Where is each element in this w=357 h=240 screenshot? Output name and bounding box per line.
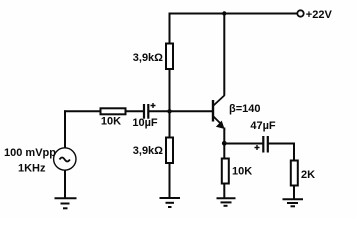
wire: 10K emitter resistor to ground — [223, 183, 225, 198]
wire: 47uF capacitor to 2K load corner — [268, 143, 294, 145]
wire: +22V supply rail — [169, 13, 298, 15]
terminal: +22V supply — [297, 10, 303, 16]
wire: rail down to upper bias resistor — [169, 13, 171, 45]
svg-text:2K: 2K — [301, 169, 315, 181]
svg-text:3,9kΩ: 3,9kΩ — [133, 52, 163, 64]
resistor 3,9k lower bias — [166, 138, 173, 164]
junction: emitter node — [222, 141, 227, 146]
wire: emitter node to 47uF coupling capacitor — [224, 143, 263, 145]
wire: input node to 10K series resistor — [64, 110, 101, 112]
polarity + of 47uF — [255, 145, 260, 150]
svg-text:1KHz: 1KHz — [18, 163, 46, 175]
resistor 3,9k upper bias — [166, 44, 173, 70]
ground: emitter resistor — [217, 198, 236, 206]
capacitor 47uF — [263, 136, 268, 153]
wire: 10K series resistor to 10uF capacitor — [125, 110, 144, 112]
junction: base node — [167, 109, 171, 113]
wire: 10uF capacitor to base node — [148, 110, 170, 112]
junction: collector to rail — [222, 11, 226, 15]
wire: lower bias resistor to ground — [169, 162, 171, 197]
ground: source — [55, 198, 77, 208]
svg-text:10K: 10K — [232, 166, 252, 178]
ground: bias divider — [160, 198, 181, 207]
wire: collector vertical from rail to transistor — [223, 14, 225, 96]
source V1 sine — [54, 148, 76, 170]
wire: 2K resistor to ground — [293, 185, 295, 199]
sine symbol of source — [60, 158, 70, 162]
capacitor 10uF — [144, 104, 148, 119]
resistor 10K series input — [101, 108, 126, 114]
svg-text:10K: 10K — [101, 116, 121, 128]
svg-text:100 mVpp: 100 mVpp — [4, 147, 56, 159]
svg-text:+22V: +22V — [306, 9, 333, 21]
resistor 2K load — [291, 161, 298, 186]
svg-text:β=140: β=140 — [229, 103, 261, 115]
wire: base node down to lower bias resistor — [169, 111, 171, 138]
svg-text:47µF: 47µF — [250, 120, 276, 132]
wire: upper bias resistor to base node — [169, 68, 171, 112]
emitter arrowhead of Q1 — [216, 121, 225, 129]
wire: base wire from divider to transistor — [170, 110, 213, 112]
polarity + of 10uF — [151, 103, 156, 108]
resistor 10K emitter — [222, 159, 229, 184]
wire: source up to input node — [64, 110, 66, 148]
wire: source down to ground — [64, 170, 66, 198]
svg-text:10µF: 10µF — [132, 117, 158, 129]
ground: 2K load — [283, 199, 304, 206]
wire: down to 2K load resistor — [293, 143, 295, 162]
transistor Q1 NPN — [213, 95, 225, 130]
svg-text:3,9kΩ: 3,9kΩ — [133, 145, 163, 157]
wire: emitter vertical down to 10K resistor — [223, 129, 225, 159]
